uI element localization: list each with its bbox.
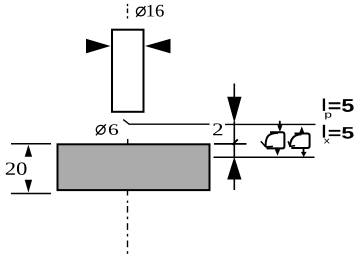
entry arrowhead bbox=[277, 125, 282, 132]
label lp=5 subscript p bbox=[325, 113, 331, 120]
dim2 oblique tick bbox=[232, 139, 238, 144]
dim2 vertical line bbox=[233, 122, 235, 157]
exit arrowhead 2 bbox=[301, 152, 307, 157]
dim 20 bottom extension line bbox=[11, 193, 51, 195]
dia16 label bbox=[136, 5, 164, 17]
dim2 extension line B bbox=[214, 143, 247, 145]
dim 20 top extension line bbox=[11, 143, 51, 145]
line A left segment bbox=[129, 123, 210, 125]
label lx=5 letter l bbox=[323, 125, 325, 138]
line C bbox=[214, 156, 315, 158]
dim2 lower leader line bbox=[233, 178, 235, 190]
workpiece (gray part) bbox=[58, 144, 210, 190]
label lp=5 equals five bbox=[329, 99, 354, 112]
dimension 2 text bbox=[213, 123, 222, 135]
dia6 label bbox=[96, 124, 118, 135]
wheel icon 1 (plunge) bbox=[261, 121, 285, 156]
tool left arrow bbox=[86, 39, 111, 54]
square 1 outline (top,right,bottom) bbox=[267, 132, 285, 148]
leader hook bbox=[123, 120, 129, 124]
arc arrowhead 2 bbox=[288, 141, 295, 146]
exit stub bbox=[303, 148, 305, 153]
label lx=5 equals five bbox=[329, 127, 354, 139]
square 2 outline (top,right,bottom) bbox=[291, 134, 309, 149]
line A right segment bbox=[225, 123, 316, 125]
dim2 down arrow bbox=[227, 97, 241, 123]
entry stub bbox=[279, 121, 281, 126]
arc arrowhead 1 bbox=[261, 141, 273, 147]
dim 20 up arrow bbox=[25, 145, 32, 157]
exit arrowhead 1 bbox=[275, 149, 280, 155]
rotation arc 1 bbox=[266, 133, 278, 147]
dim 20 down arrow bbox=[25, 180, 32, 193]
rotation arc 2 bbox=[290, 134, 302, 146]
wheel icon 2 (retract) bbox=[288, 126, 310, 157]
tool right arrow bbox=[145, 39, 171, 54]
label lp=5 letter l bbox=[323, 99, 325, 111]
centerline bbox=[127, 4, 129, 254]
label lx=5 subscript x bbox=[324, 139, 330, 144]
dim2 up arrow bbox=[227, 157, 241, 180]
dim 20 text bbox=[6, 162, 27, 175]
tool body rectangle bbox=[112, 30, 144, 112]
dim2 upper leader line bbox=[233, 84, 235, 99]
up arrowhead bbox=[299, 126, 304, 132]
